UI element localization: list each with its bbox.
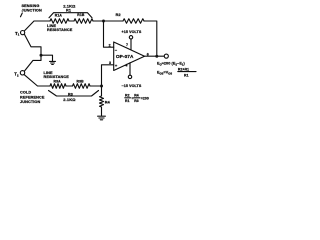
svg-text:OP-07A: OP-07A	[116, 54, 134, 59]
svg-text:T2: T2	[14, 72, 19, 78]
wire T1 up-diagonal to top row	[24, 21, 50, 31]
svg-text:R1B: R1B	[77, 13, 85, 17]
op-amp U1 triangle	[114, 42, 145, 71]
pin 7 stub to +15V	[130, 39, 132, 50]
feedback wire R2 to output node	[144, 21, 157, 56]
brace over R1	[49, 13, 92, 18]
wire T1 down-diagonal to node B	[24, 34, 41, 60]
wire R4 to ground	[101, 107, 103, 116]
svg-text:3: 3	[109, 61, 111, 65]
pin 4 stub to -15V	[129, 63, 131, 75]
resistor R3A	[50, 84, 66, 89]
svg-text:7: 7	[126, 43, 128, 47]
wire R3B to node C	[90, 85, 102, 87]
svg-text:R3B: R3B	[77, 79, 85, 83]
svg-text:JUNCTION: JUNCTION	[20, 100, 41, 104]
svg-text:2.1KΩ: 2.1KΩ	[63, 97, 76, 102]
wire R1B to node A	[93, 20, 123, 22]
svg-text:EO≈200 (E2−E1): EO≈200 (E2−E1)	[157, 62, 185, 67]
resistor R1B	[74, 19, 93, 24]
svg-text:R3: R3	[68, 92, 73, 96]
svg-text:EOS=VOS: EOS=VOS	[157, 71, 172, 76]
svg-text:R4: R4	[134, 94, 139, 98]
svg-text:6: 6	[147, 52, 149, 56]
svg-text:T1: T1	[15, 31, 20, 37]
resistor R1A	[50, 19, 69, 24]
svg-text:R1: R1	[66, 9, 71, 13]
svg-text:+: +	[115, 63, 118, 68]
output wire pin 6	[145, 55, 165, 57]
wire node C down to R4	[101, 86, 103, 96]
ground under R4	[98, 116, 106, 120]
svg-text:RESISTANCE: RESISTANCE	[44, 75, 70, 79]
output terminal Eo	[164, 54, 168, 58]
svg-text:R3: R3	[134, 99, 139, 103]
svg-text:−15 VOLTS: −15 VOLTS	[122, 84, 142, 88]
svg-text:+15 VOLTS: +15 VOLTS	[122, 30, 142, 34]
svg-text:R2: R2	[116, 13, 121, 17]
wire between R1A and R1B	[69, 20, 74, 22]
resistor R3B	[73, 84, 91, 89]
output node junction dot	[155, 55, 158, 58]
leader arrow to T1	[21, 13, 23, 17]
svg-text:SENSING: SENSING	[22, 4, 40, 8]
svg-text:R1A: R1A	[55, 13, 63, 17]
svg-text:R2+R1: R2+R1	[178, 67, 189, 71]
svg-text:RESISTANCE: RESISTANCE	[47, 28, 73, 32]
node C junction dot	[100, 85, 103, 88]
resistor R4	[100, 96, 104, 107]
terminal T1 (sensing junction)	[21, 30, 25, 34]
wire node B to ground	[41, 55, 53, 61]
brace under R3	[49, 91, 99, 97]
svg-text:4: 4	[125, 64, 127, 68]
svg-text:=200: =200	[141, 97, 149, 101]
+15V terminal	[129, 36, 132, 39]
node A junction dot	[102, 20, 105, 23]
svg-text:R3A: R3A	[54, 79, 62, 83]
svg-text:R1: R1	[184, 73, 189, 77]
svg-text:COLD: COLD	[20, 91, 31, 95]
resistor R2	[123, 19, 144, 24]
svg-text:−: −	[115, 47, 118, 52]
svg-text:REFERENCE: REFERENCE	[20, 95, 45, 99]
wire T2 up-diagonal to node B	[25, 60, 42, 71]
wire node C up to non-inverting input	[102, 65, 114, 86]
svg-text:R2: R2	[125, 94, 130, 98]
svg-text:JUNCTION: JUNCTION	[22, 9, 43, 13]
svg-text:2: 2	[109, 43, 111, 47]
node B junction dot	[40, 54, 43, 57]
ground (thermocouple common)	[50, 61, 56, 64]
wire node A down to inverting input	[104, 21, 114, 47]
svg-text:R4: R4	[105, 101, 111, 105]
wire between R3A and R3B	[66, 85, 73, 87]
svg-text:R1: R1	[125, 99, 130, 103]
terminal T2 (cold reference junction)	[20, 71, 24, 75]
-15V terminal	[128, 75, 131, 78]
wire T2 down-diagonal to bottom row	[24, 75, 50, 86]
